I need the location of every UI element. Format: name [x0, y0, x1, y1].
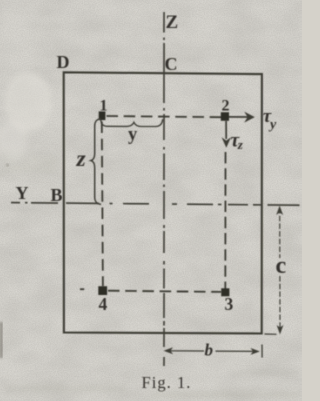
svg-text:y: y [268, 118, 277, 133]
svg-text:4: 4 [99, 294, 108, 314]
svg-text:Y: Y [16, 183, 29, 203]
svg-text:b: b [205, 341, 214, 360]
svg-text:3: 3 [225, 294, 234, 314]
svg-text:Z: Z [166, 12, 179, 33]
svg-text:2: 2 [222, 98, 230, 115]
svg-text:z: z [237, 137, 244, 152]
svg-text:C: C [165, 54, 178, 74]
svg-text:y: y [128, 125, 138, 145]
svg-text:z: z [76, 146, 87, 172]
svg-text:c: c [276, 253, 287, 279]
svg-text:Fig. 1.: Fig. 1. [142, 373, 192, 392]
svg-text:B: B [51, 185, 63, 205]
svg-text:1: 1 [100, 98, 108, 115]
svg-text:D: D [57, 52, 70, 72]
